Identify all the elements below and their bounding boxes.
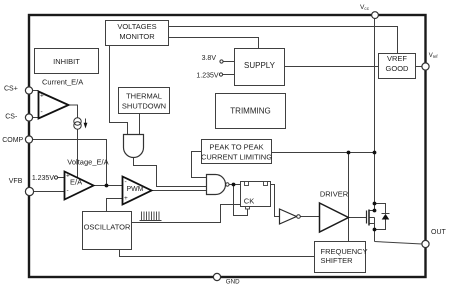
svg-text:Voltage_E/A: Voltage_E/A (67, 158, 108, 167)
svg-text:+: + (66, 172, 70, 179)
svg-text:-: - (41, 109, 43, 116)
svg-text:-: - (125, 178, 127, 185)
svg-text:CS+: CS+ (4, 86, 18, 93)
svg-text:INHIBIT: INHIBIT (53, 57, 80, 66)
svg-text:MONITOR: MONITOR (119, 32, 155, 41)
svg-text:OUT: OUT (431, 229, 447, 236)
svg-text:Vref: Vref (429, 53, 439, 59)
svg-text:VFB: VFB (9, 178, 23, 185)
svg-text:1.235V: 1.235V (196, 72, 219, 79)
svg-text:1.235V: 1.235V (32, 175, 55, 182)
svg-text:SHIFTER: SHIFTER (321, 256, 354, 265)
svg-text:CS-: CS- (5, 113, 18, 120)
svg-text:Current_E/A: Current_E/A (42, 77, 83, 86)
svg-text:SHUTDOWN: SHUTDOWN (122, 101, 166, 110)
svg-text:TRIMMING: TRIMMING (230, 107, 270, 116)
svg-text:FREQUENCY: FREQUENCY (321, 247, 368, 256)
svg-text:GOOD: GOOD (386, 64, 410, 73)
svg-text:THERMAL: THERMAL (126, 92, 162, 101)
svg-text:CK: CK (244, 196, 254, 205)
svg-text:GND: GND (226, 279, 240, 286)
svg-text:PWM: PWM (127, 186, 144, 193)
svg-text:+: + (40, 93, 44, 100)
svg-text:E/A: E/A (70, 177, 82, 186)
svg-text:DRIVER: DRIVER (320, 190, 349, 199)
svg-text:SUPPLY: SUPPLY (244, 61, 276, 70)
svg-text:CURRENT LIMITING: CURRENT LIMITING (201, 152, 272, 161)
svg-text:OSCILLATOR: OSCILLATOR (84, 223, 131, 232)
svg-text:3.8V: 3.8V (202, 55, 217, 62)
svg-text:+: + (124, 195, 128, 202)
svg-text:-: - (67, 187, 69, 194)
svg-text:VOLTAGES: VOLTAGES (117, 22, 156, 31)
svg-text:PEAK TO PEAK: PEAK TO PEAK (209, 143, 263, 152)
svg-text:COMP: COMP (2, 137, 23, 144)
svg-text:VREF: VREF (387, 54, 407, 63)
